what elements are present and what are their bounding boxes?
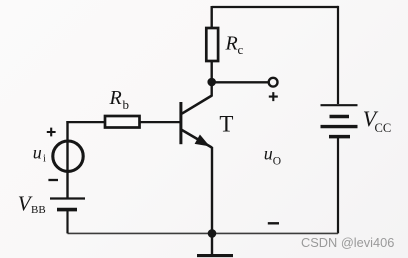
svg-text:T: T	[219, 112, 233, 137]
plus sign at source	[47, 128, 56, 137]
wire: right rail upper (to Vcc +)	[337, 6, 339, 104]
svg-text:CSDN @levi406: CSDN @levi406	[301, 235, 394, 250]
svg-text:O: O	[273, 156, 281, 168]
wire: Rb to base bar	[140, 121, 181, 123]
wire: collector vertical to node	[210, 78, 212, 97]
node: emitter junction dot	[208, 229, 217, 238]
svg-text:R: R	[109, 87, 122, 109]
svg-text:c: c	[238, 42, 244, 57]
minus sign at output	[268, 222, 279, 224]
battery Vcc plate 2 (short thick)	[330, 115, 350, 119]
wire: right rail lower (Vcc - to bottom rail)	[337, 137, 339, 234]
resistor Rb box	[105, 116, 140, 128]
transistor T base bar	[179, 102, 182, 144]
wire: Vbb stem down to bottom rail	[66, 210, 68, 234]
resistor Rc upper wire	[210, 6, 212, 28]
battery Vbb long plate	[50, 197, 85, 199]
wire: bottom rail	[68, 232, 339, 234]
battery Vcc plate 4 (short thick)	[329, 135, 350, 139]
svg-text:CC: CC	[375, 121, 392, 135]
battery Vcc plate 3 (long thick)	[321, 125, 358, 128]
transistor emitter diagonal	[182, 130, 213, 148]
svg-text:u: u	[33, 142, 42, 162]
node: collector junction dot	[207, 78, 216, 87]
resistor Rc box	[206, 28, 218, 61]
svg-text:b: b	[123, 97, 130, 112]
wire: emitter vertical to bottom rail	[211, 147, 213, 233]
source ui circle	[53, 141, 83, 171]
svg-text:BB: BB	[31, 204, 46, 216]
transistor collector diagonal	[182, 96, 212, 114]
wire: left rail (source branch)	[66, 121, 68, 199]
ground stem	[211, 233, 213, 254]
ground bar	[197, 254, 233, 257]
svg-text:i: i	[43, 154, 46, 165]
wire: collector node to output terminal	[212, 81, 269, 83]
resistor Rc lower wire	[210, 61, 212, 82]
battery Vbb short thick plate	[57, 208, 77, 212]
output terminal open circle	[269, 78, 278, 87]
plus sign at output	[269, 92, 278, 101]
battery Vcc plate 1 (long thin)	[321, 104, 358, 106]
minus sign at source	[48, 179, 58, 181]
svg-text:R: R	[225, 33, 238, 55]
wire: base wire from source corner to Rb	[66, 121, 105, 123]
transistor emitter arrowhead	[195, 135, 210, 147]
wire: top rail from Rc to Vcc	[212, 6, 338, 8]
svg-text:u: u	[264, 143, 273, 163]
